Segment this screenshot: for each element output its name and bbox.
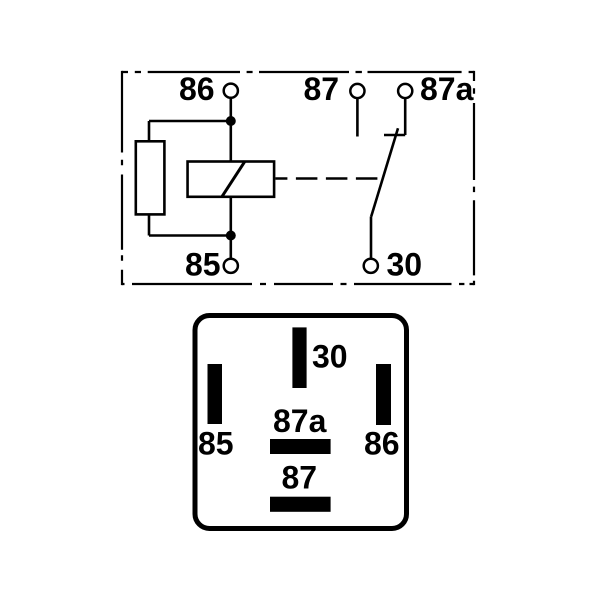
pin blade 87a (horizontal, center) — [270, 439, 331, 454]
contact stub 87 (normally open) — [356, 99, 359, 137]
pin blade 87 (horizontal, bottom) — [270, 497, 331, 512]
svg-text:85: 85 — [198, 426, 234, 462]
relay coil K1 (rectangle) — [188, 162, 275, 197]
wire junction to resistor branch (horizontal) — [149, 120, 231, 123]
junction node (top) — [226, 116, 236, 126]
svg-text:87a: 87a — [273, 403, 327, 439]
wire armature to terminal 30 — [370, 217, 373, 259]
wire coil bottom to junction — [230, 197, 233, 236]
svg-text:86: 86 — [179, 71, 215, 107]
svg-text:30: 30 — [387, 247, 423, 283]
armature blade (changeover contact) — [371, 128, 398, 216]
svg-text:85: 85 — [185, 247, 221, 283]
wire horizontal to bottom junction — [149, 234, 231, 237]
terminal circle 86 — [224, 84, 238, 98]
svg-text:30: 30 — [312, 339, 348, 375]
resistor R (parallel to coil) — [136, 141, 165, 214]
enclosure border (relay body outline, dash-dot chain line) — [122, 71, 474, 285]
pin blade 85 (vertical, left) — [208, 364, 223, 424]
junction node (bottom) — [226, 231, 236, 241]
relay base outline (pin view, rounded square) — [195, 316, 407, 529]
wire junction to terminal 85 — [230, 236, 233, 259]
contact 87a (horizontal, normally closed) — [384, 134, 405, 137]
terminal circle 87 — [350, 84, 364, 98]
wire resistor bottom down — [148, 215, 151, 236]
svg-text:86: 86 — [364, 426, 400, 462]
wire junction to coil top — [230, 121, 233, 162]
wire from terminal 86 to junction — [230, 98, 233, 121]
svg-text:87: 87 — [304, 71, 340, 107]
terminal circle 30 — [364, 259, 378, 273]
actuator link (dashed) from coil to armature — [275, 177, 381, 180]
terminal circle 87a — [398, 84, 412, 98]
wire down to resistor top — [148, 121, 151, 141]
pin blade 30 (vertical) — [292, 327, 306, 388]
svg-text:87a: 87a — [420, 71, 474, 107]
terminal circle 85 — [224, 259, 238, 273]
svg-text:87: 87 — [282, 460, 318, 496]
wire 87a down — [404, 99, 407, 135]
pin blade 86 (vertical, right) — [376, 364, 391, 425]
coil diagonal stroke — [222, 161, 245, 196]
